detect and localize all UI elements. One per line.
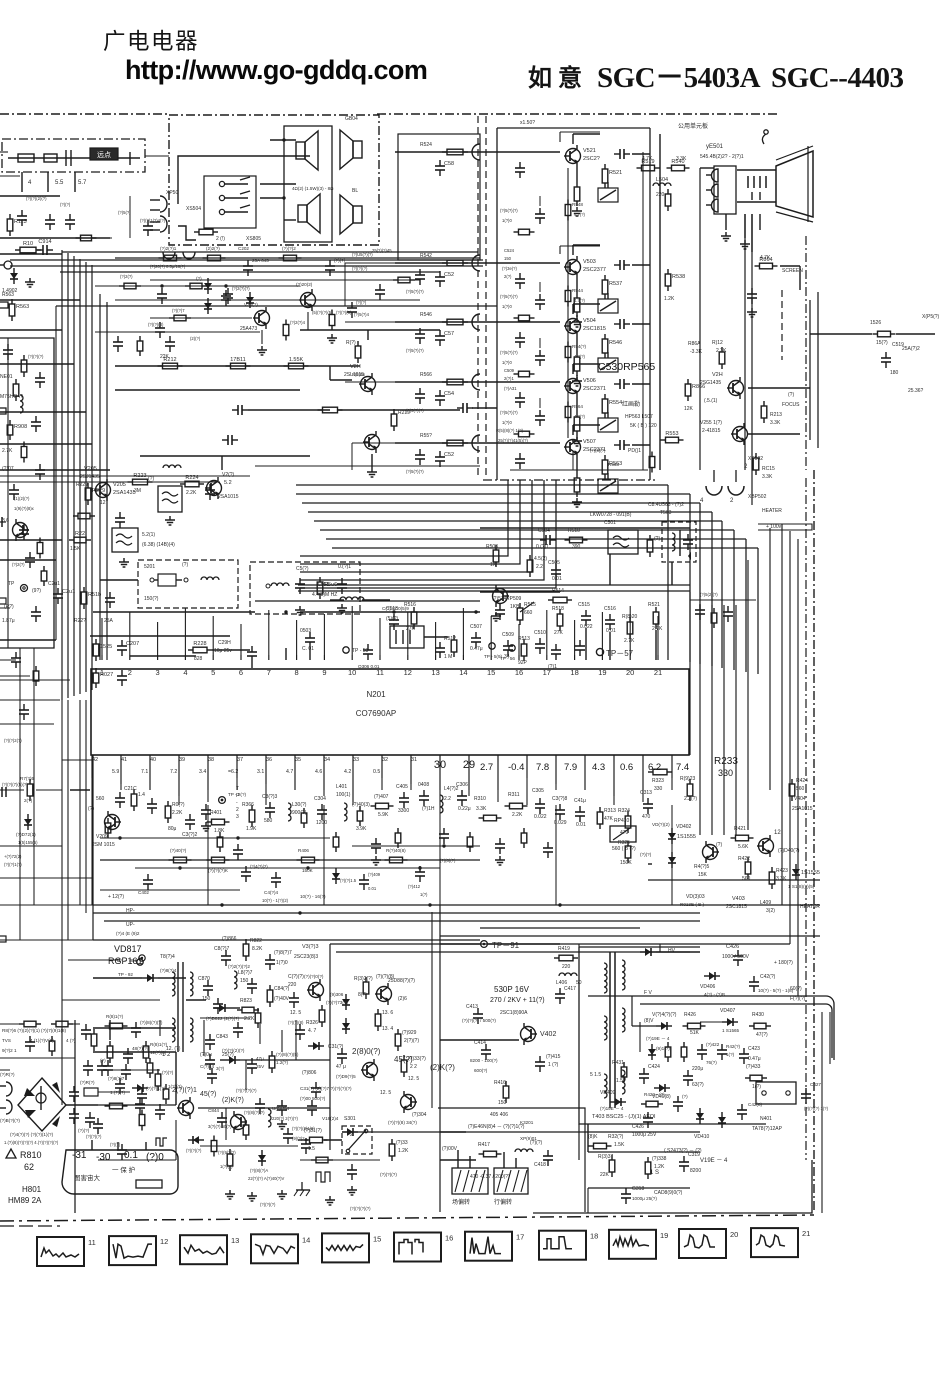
capacitor C: [499, 838, 501, 844]
inductor L: [559, 973, 577, 976]
svg-text:VD(?)(2): VD(?)(2): [652, 822, 670, 827]
svg-text:470: 470: [620, 830, 629, 836]
capacitor C: [539, 208, 541, 214]
svg-text:48(?)(?): 48(?)(?): [132, 1046, 149, 1051]
svg-text:4Ω(2) (1.5W)(3) - 8Ω: 4Ω(2) (1.5W)(3) - 8Ω: [292, 186, 334, 191]
resistor: [683, 1025, 688, 1027]
resistor: [245, 939, 247, 944]
wire: [609, 554, 611, 585]
transistor Q: [729, 381, 744, 396]
svg-text:R538: R538: [672, 274, 685, 280]
pin 37: [236, 755, 238, 762]
capacitor C: [275, 872, 277, 878]
ground: [351, 1186, 353, 1190]
ground: [576, 437, 578, 441]
inductor L504: [653, 183, 671, 186]
svg-text:(R?): (R?): [4, 604, 14, 610]
svg-text:(?)(?): (?)(?): [60, 202, 71, 207]
svg-text:(9)(?)2: (9)(?)2: [292, 1136, 305, 1141]
svg-text:R422: R422: [738, 856, 750, 862]
svg-text:3.3K: 3.3K: [770, 420, 781, 426]
wire bus v: [721, 521, 723, 668]
svg-text:1(?)0: 1(?)0: [502, 218, 512, 223]
svg-text:R416: R416: [494, 1080, 506, 1086]
inductor L: [268, 1109, 271, 1127]
svg-text:1(?)0: 1(?)0: [502, 360, 512, 365]
pin 28: [497, 755, 499, 762]
svg-text:2: 2: [350, 1132, 353, 1138]
resistor: [257, 1008, 259, 1013]
wire: [91, 1140, 93, 1150]
svg-text:(?)(?): (?)(?): [162, 1070, 174, 1075]
wire: [98, 1104, 176, 1106]
wire pin drop2: [671, 762, 673, 790]
ground: [261, 346, 263, 350]
wire: [20, 939, 440, 941]
wire: [572, 304, 574, 314]
diode 1S1555: [671, 828, 673, 844]
svg-text:K3201: K3201: [520, 1120, 534, 1125]
resistor: [141, 1110, 143, 1115]
svg-text:2.2K: 2.2K: [172, 810, 183, 816]
capacitor C: [457, 407, 463, 409]
capacitor C: [101, 1060, 103, 1066]
resistor: [207, 821, 212, 823]
svg-text:13. 4: 13. 4: [382, 1026, 393, 1032]
wire: [60, 271, 440, 273]
TP-59: [489, 643, 495, 649]
svg-text:(?): (?): [788, 392, 794, 398]
capacitor C: [209, 484, 211, 490]
svg-text:R(5)(8)(?) 1(?): R(5)(8)(?) 1(?): [496, 428, 524, 433]
capacitor C: [23, 704, 25, 710]
resistor: [567, 402, 569, 407]
node: [178, 866, 181, 869]
pin 10: [351, 655, 353, 660]
capacitor C: [625, 1188, 627, 1194]
svg-text:(?)(?)(2)(?): (?)(?)(2)(?): [26, 196, 47, 201]
resistor: [23, 442, 25, 447]
svg-text:(?)866: (?)866: [222, 936, 237, 942]
diode VD: [704, 975, 720, 977]
wire pin riser: [407, 612, 409, 655]
wire bus h: [326, 538, 746, 540]
diode VD: [13, 268, 15, 284]
svg-text:(6.38) (14B)(4): (6.38) (14B)(4): [142, 542, 175, 548]
waveform trace 20: [684, 1235, 715, 1248]
svg-text:4: 4: [28, 180, 32, 186]
svg-text:(?)A31: (?)A31: [504, 386, 517, 391]
svg-text:(?)20(?) 0.5μ/16(?): (?)20(?) 0.5μ/16(?): [150, 264, 186, 269]
svg-text:3.1: 3.1: [257, 769, 264, 775]
wire pin drop: [91, 762, 93, 778]
svg-text:V255 1(?): V255 1(?): [700, 420, 722, 426]
video board border bottom: [483, 479, 655, 481]
svg-text:(?)(?)(?)(?): (?)(?)(?)(?): [350, 1206, 371, 1211]
svg-text:405 406: 405 406: [490, 1112, 508, 1118]
resistor: [194, 231, 199, 233]
pin 9: [323, 655, 325, 660]
svg-text:45(?): 45(?): [200, 1091, 216, 1098]
resistor R51b: [83, 587, 85, 592]
bottom row of board: [510, 469, 648, 471]
svg-text:1S1555: 1S1555: [801, 870, 820, 876]
inductor L: [234, 971, 237, 989]
svg-text:(9?): (9?): [32, 588, 41, 594]
svg-text:C8.4U563 - (?)2: C8.4U563 - (?)2: [648, 502, 684, 508]
wire: [344, 263, 346, 306]
svg-text:(?)929: (?)929: [402, 1030, 417, 1036]
wire: [747, 560, 749, 830]
wire mid verticals: [203, 1020, 205, 1056]
resistor: [731, 837, 736, 839]
svg-text:600(?): 600(?): [474, 1068, 488, 1073]
capacitor C: [805, 1088, 807, 1094]
wire pin riser: [379, 618, 381, 655]
transistor Q: [759, 839, 774, 854]
svg-text:0.022: 0.022: [534, 814, 547, 820]
wire pin deep drop: [555, 805, 557, 905]
wire: [440, 935, 640, 937]
svg-text:1K: 1K: [490, 562, 497, 568]
capacitor C: [737, 950, 739, 956]
capacitor C: [614, 444, 620, 446]
ground: [251, 1192, 253, 1196]
svg-text:R(?)40(8): R(?)40(8): [386, 848, 406, 853]
capacitor C: [419, 449, 421, 455]
pin 31: [410, 755, 412, 762]
resistor edge2: [0, 408, 6, 414]
IC N201 box: [91, 669, 689, 755]
svg-text:22K: 22K: [160, 354, 170, 360]
svg-text:FOCUS: FOCUS: [782, 402, 800, 408]
diode VD: [207, 278, 209, 294]
wire: [270, 139, 296, 141]
svg-text:HV: HV: [668, 948, 676, 954]
capacitor C: [281, 1100, 283, 1106]
resistor: [35, 666, 37, 671]
svg-text:V507: V507: [583, 439, 596, 445]
long wire: [62, 251, 478, 253]
capacitor C: [21, 210, 23, 216]
wire pin drop2: [149, 762, 151, 790]
svg-text:25A(?)2: 25A(?)2: [902, 346, 920, 352]
capacitor C: [419, 269, 421, 275]
svg-text:R51b: R51b: [88, 592, 101, 598]
ground: [495, 612, 497, 616]
wire: [178, 226, 196, 240]
svg-text:V403: V403: [732, 896, 745, 902]
long wire: [300, 1059, 330, 1061]
svg-text:(?)(?): (?)(?): [110, 1142, 121, 1147]
capacitor C: [287, 1128, 289, 1134]
ground: [576, 318, 578, 322]
wire: [723, 605, 725, 835]
diode VD: [722, 1021, 738, 1023]
svg-text:R521: R521: [609, 170, 622, 176]
capacitor C: [151, 798, 153, 804]
wire: [0, 723, 54, 725]
wire pin drop: [120, 762, 122, 784]
inductor L: [672, 533, 675, 551]
wire pin drop2: [178, 762, 180, 805]
video board inner right edge: [649, 128, 651, 480]
svg-text:G318: G318: [632, 1186, 644, 1192]
capacitor C: [217, 998, 219, 1004]
ground: [371, 468, 373, 472]
inductor L: [622, 960, 625, 990]
wire pin drop: [381, 762, 383, 778]
diode VD: [214, 1007, 230, 1009]
svg-text:2.3K: 2.3K: [716, 348, 727, 354]
resistor R563: [11, 299, 13, 304]
inductor L: [20, 395, 23, 413]
resistor R538: [667, 269, 669, 274]
waveform trace 13: [184, 1245, 224, 1254]
svg-text:2SC23(8)3: 2SC23(8)3: [294, 954, 318, 960]
wire: [0, 679, 70, 681]
svg-text:1.9K: 1.9K: [246, 826, 257, 832]
diode VD: [671, 852, 673, 868]
wire: [60, 237, 78, 239]
resistor: [647, 1157, 649, 1162]
wire pin drop: [555, 762, 557, 784]
svg-text:1 S1(8)(?)(5): 1 S1(8)(?)(5): [788, 884, 815, 889]
svg-text:R228: R228: [193, 641, 206, 647]
svg-text:1.5K: 1.5K: [70, 546, 81, 552]
svg-text:2SC2377: 2SC2377: [583, 267, 606, 273]
svg-text:R(3)2(?): R(3)2(?): [354, 976, 373, 982]
svg-text:(?)5(?): (?)5(?): [118, 210, 131, 215]
svg-text:2.2: 2.2: [444, 796, 451, 802]
wire: [33, 648, 35, 905]
resistor: [755, 453, 757, 458]
xtal box: [390, 626, 424, 648]
wire: [587, 1124, 589, 1152]
pin 26: [555, 755, 557, 762]
svg-text:(?)R(?): (?)R(?): [80, 1080, 95, 1085]
long wire: [93, 939, 480, 941]
svg-text:12. 5: 12. 5: [290, 1010, 301, 1016]
svg-text:2SC2371: 2SC2371: [583, 386, 606, 392]
resistor: [305, 1139, 310, 1141]
capacitor C: [547, 842, 549, 848]
svg-text:x1.50?: x1.50?: [520, 120, 535, 126]
diode VD: [142, 977, 158, 979]
plug connector XP501: [160, 196, 167, 212]
diode VD: [261, 1150, 263, 1166]
wire: [395, 381, 497, 383]
left edge wires: [0, 253, 62, 255]
resistor: [251, 805, 253, 810]
diode VD: [342, 1131, 358, 1133]
resistor: [365, 977, 367, 982]
waveform box 17: [465, 1232, 512, 1261]
waveform box 20: [679, 1229, 726, 1258]
pin 41: [120, 755, 122, 762]
svg-text:C507: C507: [470, 624, 482, 630]
svg-text:(?)(?)(?): (?)(?)(?): [380, 1172, 397, 1177]
svg-text:4.7K: 4.7K: [642, 156, 653, 162]
resistor: [514, 373, 519, 375]
svg-text:C42(?): C42(?): [760, 974, 776, 980]
wire: [55, 306, 57, 640]
resistor: [391, 1139, 393, 1144]
bridge diode 3: [25, 1110, 36, 1118]
wire: [200, 1145, 298, 1147]
capacitor C: [117, 336, 119, 342]
svg-text:1(?): 1(?): [420, 892, 428, 897]
resistor: [873, 333, 878, 335]
resistor: [139, 336, 141, 341]
svg-text:13. 6: 13. 6: [382, 1010, 393, 1016]
svg-text:2SC1815: 2SC1815: [583, 326, 606, 332]
capacitor edge5: [1, 787, 3, 797]
wire pin riser: [574, 620, 576, 655]
svg-text:5.9K: 5.9K: [378, 812, 389, 818]
CRT inner pins: [747, 176, 749, 188]
node: [220, 903, 223, 906]
capacitor C: [403, 792, 405, 798]
svg-text:-30: -30: [96, 1152, 111, 1163]
svg-text:L30(?): L30(?): [292, 802, 307, 808]
svg-text:R544: R544: [572, 288, 583, 293]
wire: [145, 155, 169, 157]
capacitor C: [485, 1044, 487, 1050]
connector pin arc: [472, 144, 480, 160]
ground: [576, 207, 578, 211]
svg-text:150: 150: [504, 256, 512, 261]
wire bus v: [699, 503, 701, 664]
resistor: [548, 599, 553, 601]
waveform trace 15: [326, 1244, 363, 1250]
wire: [497, 151, 560, 153]
resistor: [479, 817, 484, 819]
pin 3: [157, 655, 159, 660]
capacitor C: [647, 1112, 649, 1118]
svg-text:R0(?): R0(?): [172, 802, 185, 808]
capacitor C914: [37, 249, 43, 251]
capacitor C: [222, 439, 228, 441]
svg-text:R563: R563: [2, 292, 14, 298]
capacitor C: [321, 804, 323, 810]
ground: [341, 604, 343, 608]
svg-text:C516: C516: [604, 606, 616, 612]
svg-text:T8(?)4: T8(?)4: [160, 954, 175, 960]
transistor Q: [733, 427, 748, 442]
svg-text:(?): (?): [196, 276, 202, 281]
svg-text:T403 BSC25 - (J)(1) AFOI: T403 BSC25 - (J)(1) AFOI: [592, 1114, 656, 1120]
capacitor C: [647, 798, 649, 804]
connector pin arc: [472, 374, 480, 390]
wire pin drop2: [294, 762, 296, 790]
svg-text:0.5: 0.5: [373, 769, 380, 775]
svg-text:C509: C509: [504, 368, 515, 373]
svg-text:2SG1435: 2SG1435: [700, 380, 721, 386]
svg-text:(?)5(?)4: (?)5(?)4: [354, 312, 370, 317]
speaker: [353, 141, 362, 158]
transistor 5.2: [207, 481, 222, 496]
capacitor C: [699, 604, 701, 610]
wire: [480, 591, 560, 593]
svg-text:公用单元板: 公用单元板: [678, 122, 708, 130]
svg-text:150K: 150K: [620, 860, 632, 866]
wire: [0, 939, 93, 941]
capacitor C: [341, 1048, 343, 1054]
svg-text:TVS: TVS: [2, 1038, 11, 1043]
capacitor C: [13, 484, 15, 490]
svg-text:TA78(?)12AP: TA78(?)12AP: [752, 1126, 783, 1132]
svg-text:(2)6: (2)6: [398, 996, 407, 1002]
inductor L: [515, 1149, 533, 1152]
svg-text:47 μ: 47 μ: [336, 1064, 346, 1070]
svg-text:R417: R417: [478, 1142, 490, 1148]
trimpot RP410: [610, 826, 636, 842]
capacitor C: [125, 1064, 127, 1070]
video board border top: [377, 113, 780, 115]
svg-text:10: 10: [348, 668, 356, 677]
resistor: [23, 355, 25, 360]
svg-text:4.3: 4.3: [592, 762, 605, 773]
wire: [93, 1027, 176, 1029]
wire pin drop2: [265, 762, 267, 805]
capacitor C: [73, 1108, 75, 1114]
capacitor C: [7, 344, 9, 350]
svg-text:V(?)4(?)(?): V(?)4(?)(?): [652, 1012, 677, 1018]
resistor: [567, 286, 569, 291]
wire: [632, 264, 650, 266]
svg-text:4.7(?): 4.7(?): [574, 212, 586, 217]
speaker jack box: [204, 176, 256, 228]
capacitor C52: [439, 271, 441, 277]
svg-text:(?)412: (?)412: [408, 884, 421, 889]
svg-text:(?)5(?)(?): (?)5(?)(?): [500, 350, 518, 355]
svg-text:(?)D40(?): (?)D40(?): [778, 848, 800, 854]
svg-text:R406: R406: [298, 848, 309, 853]
svg-text:2: 2: [128, 668, 132, 677]
pin 5: [212, 655, 214, 660]
wire: [588, 1151, 700, 1153]
wire pin drop2: [410, 762, 412, 790]
svg-text:38: 38: [208, 757, 214, 763]
wire: [632, 323, 650, 325]
svg-text:V3(?)3: V3(?)3: [302, 944, 319, 950]
capacitor C: [209, 1054, 211, 1060]
wire: [0, 175, 20, 177]
wire pin drop: [207, 762, 209, 802]
ground: [499, 856, 501, 860]
wire: [62, 999, 160, 1001]
wire: [588, 995, 640, 997]
long wire: [104, 920, 700, 922]
svg-text:1000μ 25V: 1000μ 25V: [632, 1132, 657, 1138]
svg-text:51K: 51K: [690, 1030, 700, 1036]
svg-text:R324: R324: [618, 808, 630, 814]
resistor: [629, 617, 631, 622]
svg-text:C504: C504: [538, 528, 550, 534]
svg-text:V521: V521: [583, 148, 596, 154]
resistor: [15, 379, 17, 384]
svg-text:12: 12: [160, 1237, 168, 1246]
wire pin drop: [642, 762, 644, 802]
svg-text:R548: R548: [572, 202, 583, 207]
capacitor C: [539, 294, 541, 300]
pin 39: [178, 755, 180, 762]
wire bus h: [320, 529, 734, 531]
wire pin deep drop: [207, 805, 209, 905]
wire: [0, 789, 24, 791]
waveform trace 16: [399, 1240, 423, 1255]
